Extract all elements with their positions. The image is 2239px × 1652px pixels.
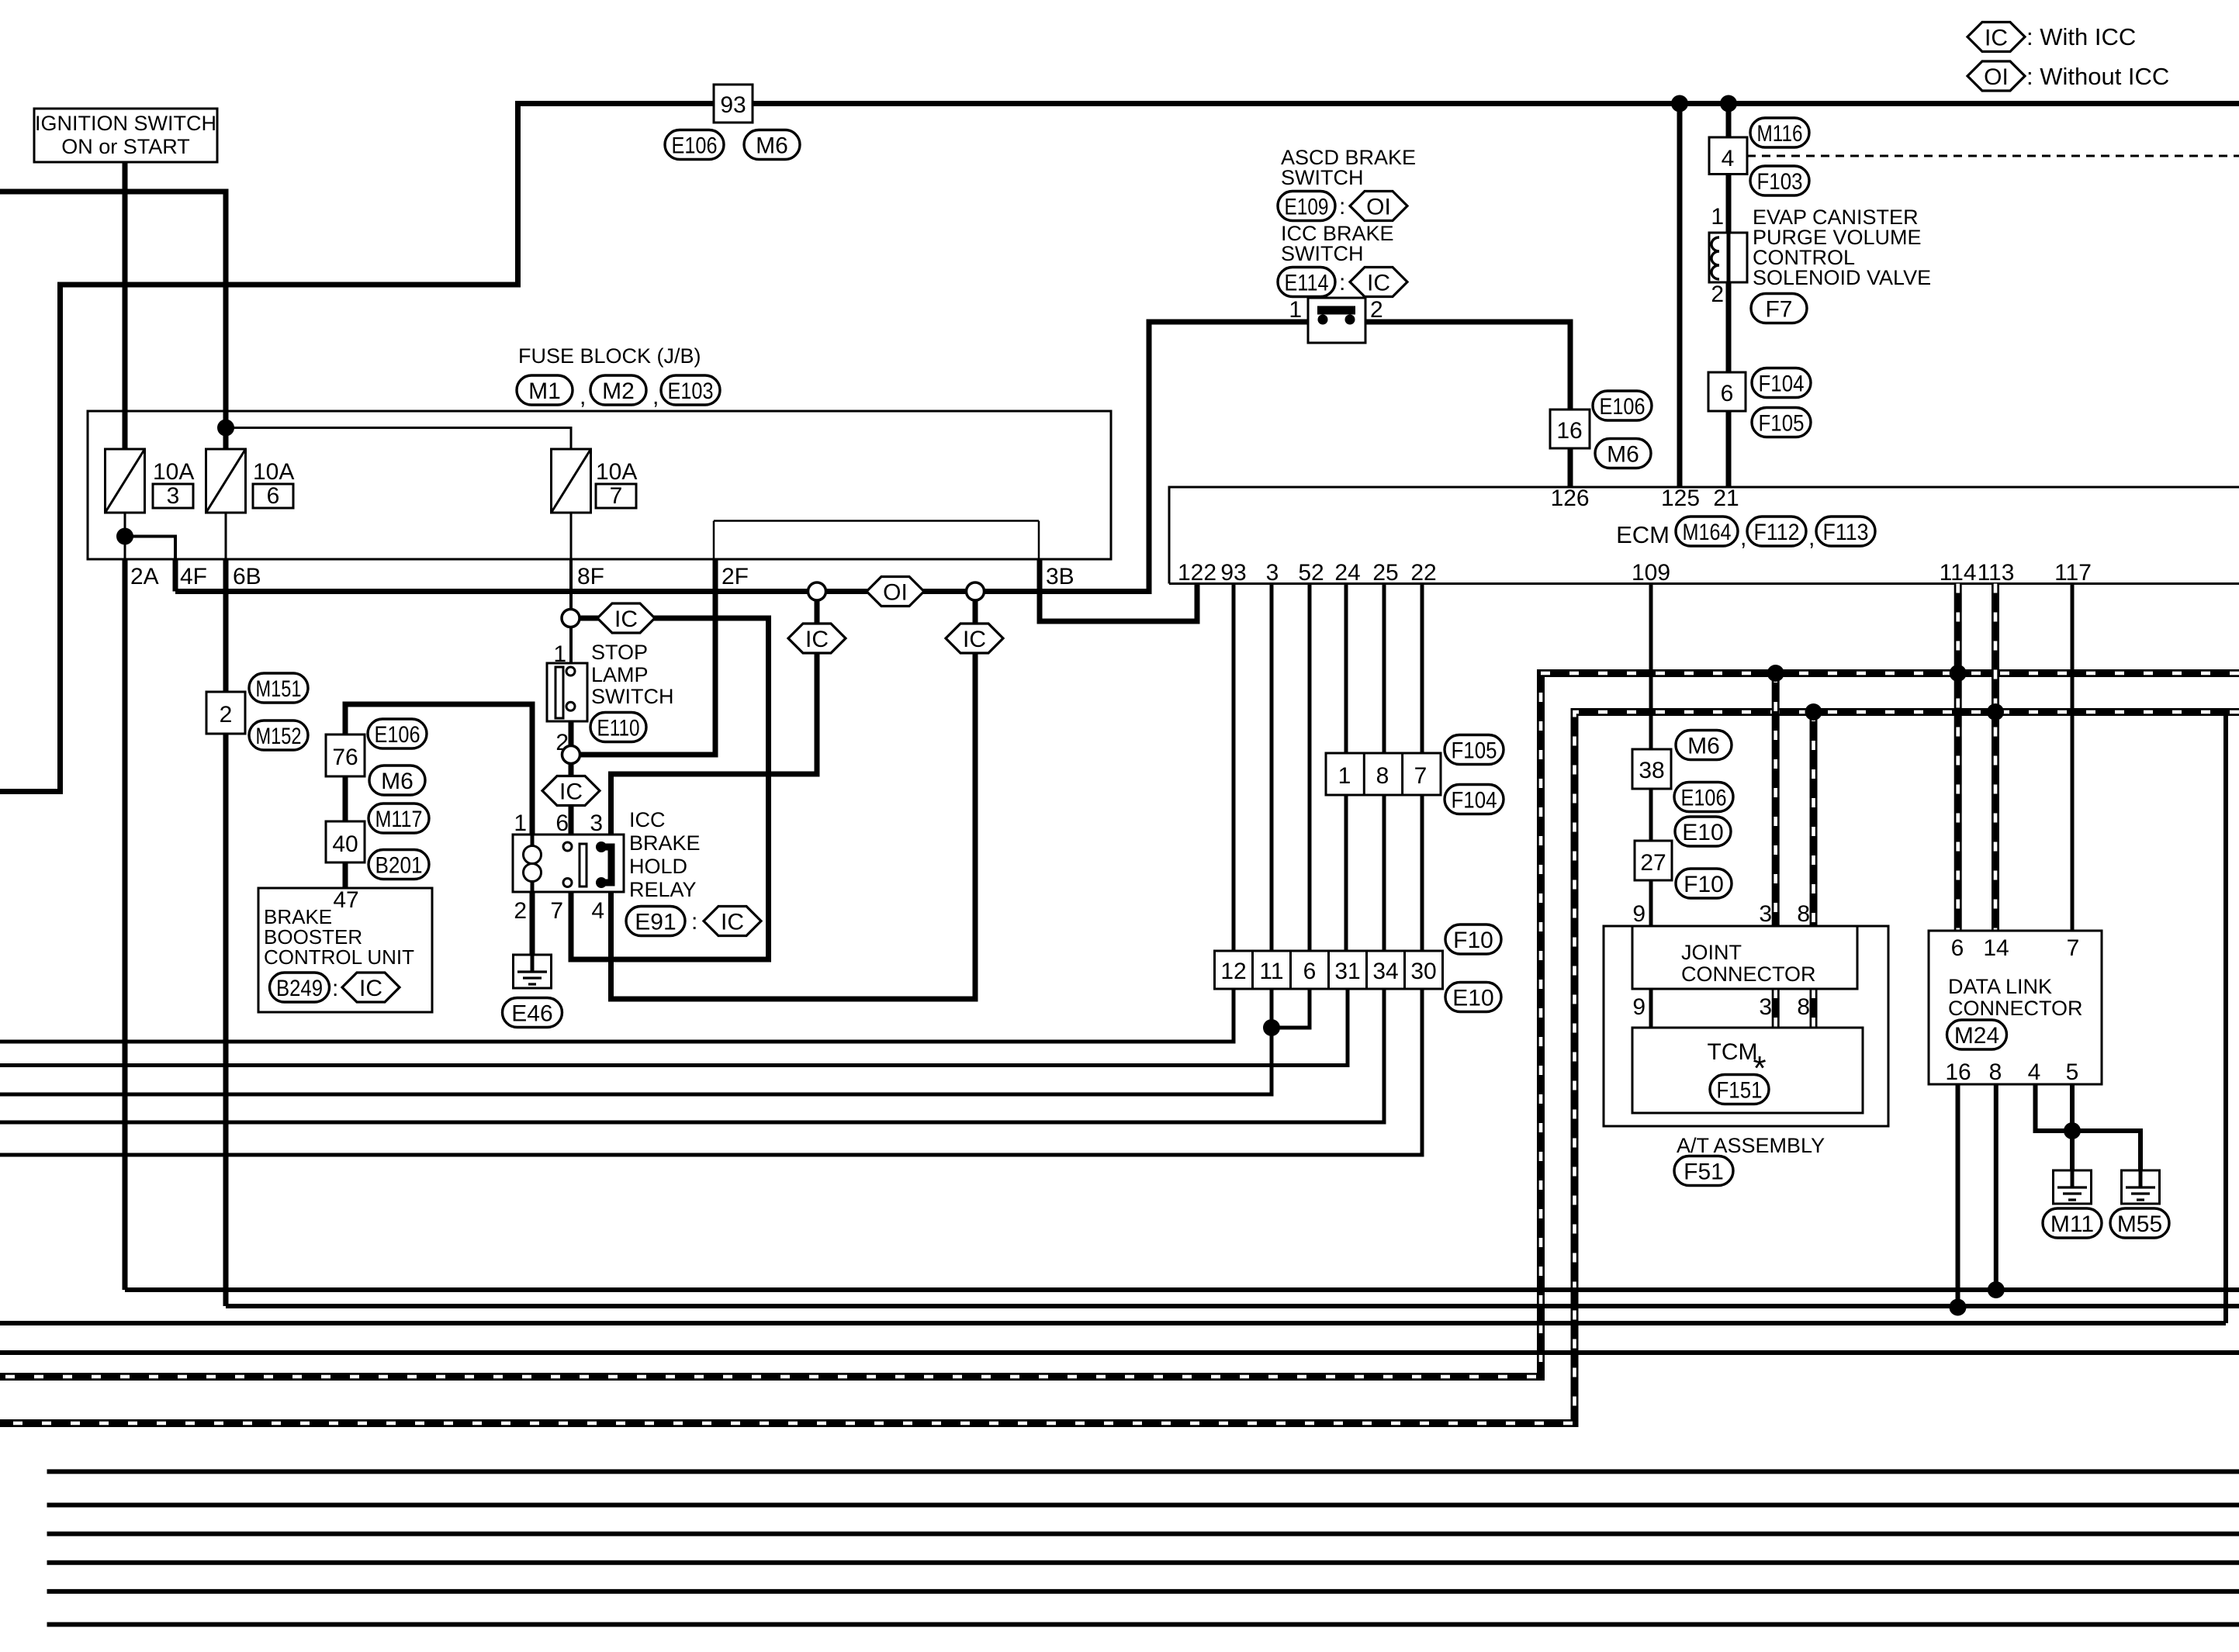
svg-text:F104: F104 (1452, 787, 1497, 813)
svg-text::: : (332, 976, 338, 1001)
svg-text:IC: IC (721, 910, 744, 935)
connector M2 oval (590, 375, 646, 405)
wire DLC 5 to ground M11 (2070, 1084, 2075, 1189)
svg-text:8: 8 (1797, 994, 1810, 1020)
connector B249 oval (270, 973, 330, 1002)
wire 40 to brake booster pin 47 (343, 862, 348, 890)
wire pin 34 to left bus line 4 (0, 989, 1384, 1122)
svg-text:4: 4 (1722, 146, 1735, 171)
connector E91 oval (626, 907, 685, 936)
svg-text:M6: M6 (756, 133, 788, 158)
wire ECM 114 dashed to DLC 6 (1954, 584, 1962, 931)
svg-text:SWITCH: SWITCH (591, 685, 673, 708)
svg-text:F10: F10 (1684, 872, 1724, 897)
junction CAN1 to ECM114 (1950, 665, 1967, 682)
wire pin 30 to left bus line 5 (0, 989, 1422, 1155)
connector E110 oval (590, 713, 646, 742)
connector circle stop lamp pin1 node (562, 610, 580, 627)
connector F113 oval (1816, 517, 1875, 546)
svg-text:E114: E114 (1285, 270, 1329, 295)
svg-text:F105: F105 (1452, 738, 1497, 763)
svg-text:M11: M11 (2050, 1211, 2094, 1237)
svg-text::: : (691, 909, 697, 935)
wire 4F bus left segment (175, 589, 808, 594)
svg-text:,: , (580, 384, 586, 410)
connector 6 box (F104/F105) (1708, 372, 1746, 411)
OI option hexagon on bus (867, 577, 924, 607)
connector E106 oval near 16 (1593, 391, 1652, 420)
svg-text:6B: 6B (233, 564, 261, 589)
svg-text:2F: 2F (722, 564, 749, 589)
svg-text:M55: M55 (2117, 1211, 2162, 1237)
svg-text:E103: E103 (668, 378, 714, 404)
svg-text:3: 3 (1266, 560, 1279, 586)
svg-text:M1: M1 (528, 378, 561, 404)
svg-text:,: , (1808, 525, 1815, 551)
wire fuse7 bottom to 8F (570, 513, 573, 559)
svg-text:IC: IC (614, 607, 638, 632)
legend OI hexagon (1967, 61, 2025, 91)
wire into stop lamp switch pin 1 (569, 627, 573, 664)
connector E106 oval near 76 (368, 719, 427, 748)
wire IC branch to relay pin 4 (611, 653, 976, 999)
svg-text:7: 7 (1414, 763, 1427, 789)
fuse 3 10A (106, 449, 145, 513)
svg-text:126: 126 (1551, 486, 1590, 511)
wire stop lamp node to relay pin 6 (569, 764, 574, 835)
svg-text:E10: E10 (1452, 985, 1493, 1011)
ground E46 oval (503, 998, 562, 1028)
svg-text:16: 16 (1556, 418, 1582, 444)
wire internal 3B tap (1038, 521, 1040, 560)
connector F7 oval (1751, 294, 1807, 323)
svg-text:M152: M152 (256, 724, 302, 749)
svg-text:IC: IC (559, 779, 583, 805)
wire 4F below block (173, 559, 178, 592)
svg-text:M117: M117 (375, 807, 423, 832)
connector 93 box on top wire (714, 85, 753, 123)
wire ECM 24 down (1344, 584, 1348, 990)
svg-text:LAMP: LAMP (591, 663, 649, 686)
EVAP purge volume control solenoid valve symbol (1709, 233, 1747, 282)
wire ECM 52 down (1308, 584, 1312, 990)
svg-text:CONTROL UNIT: CONTROL UNIT (264, 945, 414, 969)
svg-text:93: 93 (720, 92, 746, 118)
svg-text:M24: M24 (1954, 1023, 1999, 1049)
bottom feeder line 4 (47, 1560, 2239, 1565)
ICC IC option hexagon (1350, 268, 1407, 297)
svg-text:IC: IC (1985, 26, 2008, 51)
svg-text:3: 3 (1759, 994, 1772, 1020)
wire ECM 109 down to joint connector (1649, 584, 1653, 927)
svg-text:22: 22 (1410, 560, 1436, 586)
svg-text:38: 38 (1639, 758, 1664, 783)
fuse block (J/B) outline (88, 411, 1111, 559)
svg-text:JOINT: JOINT (1681, 941, 1742, 964)
svg-text:10A: 10A (153, 459, 194, 485)
connector F51 oval (1674, 1156, 1733, 1186)
svg-text:30: 30 (1410, 959, 1436, 984)
svg-text:F104: F104 (1759, 371, 1805, 396)
junction 2A/4F split (116, 528, 133, 545)
connector E109 oval (1278, 192, 1335, 221)
svg-text:F103: F103 (1757, 169, 1803, 195)
svg-text:SWITCH: SWITCH (1281, 242, 1363, 265)
svg-text:E109: E109 (1285, 194, 1329, 219)
svg-text:6: 6 (555, 810, 569, 836)
connector F103 oval (1750, 166, 1809, 195)
svg-text:2A: 2A (130, 564, 159, 589)
connector F112 oval (1747, 517, 1806, 546)
svg-text:27: 27 (1640, 850, 1666, 876)
svg-text:2: 2 (220, 702, 233, 728)
ground symbol E46 (514, 954, 552, 988)
svg-text:4: 4 (591, 898, 604, 924)
IC option hexagon above relay pin6 (542, 776, 600, 806)
svg-text:SOLENOID VALVE: SOLENOID VALVE (1753, 266, 1931, 289)
svg-text:F7: F7 (1765, 296, 1792, 322)
ground M11 oval (2043, 1208, 2102, 1238)
fuse 7 number box (596, 484, 636, 508)
svg-text:E106: E106 (375, 722, 420, 748)
svg-text:10A: 10A (253, 459, 294, 485)
wire internal 2F-3B link (714, 520, 1039, 522)
svg-text:F51: F51 (1684, 1159, 1724, 1184)
junction CAN1 to JC3 (1767, 665, 1784, 682)
svg-text:5: 5 (2066, 1059, 2079, 1085)
wire 4F bus middle segment (826, 589, 967, 594)
connector F10 oval near 27 (1676, 869, 1732, 898)
wire DLC 16 to bottom bus line 2 (1956, 1084, 1960, 1308)
wire internal 2F tap (713, 521, 715, 560)
connector F104 oval row1 (1445, 785, 1504, 814)
svg-text:F10: F10 (1453, 928, 1493, 953)
wire pin 31 to left bus line 2 (0, 989, 1348, 1066)
wire ECM 3 down (1270, 584, 1274, 990)
CAN wire 1 dashed (ECM 114) (0, 673, 2239, 1377)
wire relay pin 2 to ground (530, 892, 535, 972)
svg-text:,: , (652, 384, 659, 410)
svg-text:11: 11 (1259, 959, 1283, 984)
svg-text:IC: IC (1367, 271, 1390, 296)
wire 76 to 40 (343, 776, 348, 821)
bottom feeder line 3 (47, 1532, 2239, 1536)
ECM box (1169, 487, 2239, 584)
bus line 4 bottom (0, 1350, 2239, 1355)
wire joint connector 3 to TCM (1772, 989, 1780, 1028)
wire CAN2 branch to joint connector 8 (1810, 712, 1818, 926)
svg-text:7: 7 (610, 483, 623, 509)
junction CAN2 to ECM113 (1987, 703, 2004, 721)
connector circle bus right (967, 582, 985, 600)
bottom feeder line 5 (47, 1589, 2239, 1594)
wire bus to ICC brake switch pin 1 (985, 322, 1309, 592)
svg-text:A/T ASSEMBLY: A/T ASSEMBLY (1677, 1134, 1825, 1157)
svg-text:8: 8 (1989, 1059, 2002, 1085)
svg-text:M6: M6 (381, 769, 414, 794)
svg-text:3: 3 (590, 810, 603, 836)
bottom feeder line 1 (47, 1469, 2239, 1474)
svg-text:1: 1 (1289, 297, 1302, 323)
svg-text:47: 47 (333, 887, 358, 913)
svg-text:M2: M2 (602, 378, 635, 404)
svg-text:2: 2 (514, 898, 527, 924)
svg-text:14: 14 (1983, 935, 2009, 961)
ground symbol M55 (2122, 1170, 2160, 1204)
wire 2F to stop lamp pin2 node (580, 559, 715, 755)
svg-text:ECM: ECM (1616, 521, 1670, 548)
svg-text:HOLD: HOLD (629, 855, 687, 878)
connector M6 oval near 38 (1676, 731, 1732, 760)
connector E10 oval row2 (1445, 983, 1501, 1012)
svg-text:E10: E10 (1682, 820, 1723, 845)
svg-text:STOP: STOP (591, 641, 648, 664)
svg-text:6: 6 (1951, 935, 1964, 961)
svg-text:1: 1 (1711, 204, 1724, 230)
connector E114 oval (1278, 268, 1335, 297)
junction fuse6 top (217, 420, 234, 437)
IC option hexagon on stop lamp branch (597, 603, 655, 633)
wire relay pin 1 to brake booster 76 (345, 704, 532, 835)
bus line 3 bottom to CAN2 tap (0, 1321, 2226, 1325)
wire CAN1 branch to joint connector 3 (1772, 673, 1780, 926)
svg-text:1: 1 (553, 641, 566, 667)
connector F151 oval (1710, 1075, 1769, 1104)
CAN wire 2 dashed (ECM 113) (0, 712, 2239, 1423)
svg-text:E106: E106 (672, 133, 718, 158)
svg-text:BRAKE: BRAKE (629, 831, 701, 855)
svg-text:16: 16 (1945, 1059, 1971, 1085)
svg-text:40: 40 (332, 831, 358, 857)
wire DLC 8 to bottom bus line 1 (1994, 1084, 1998, 1290)
wire DLC 4 to ground node (2036, 1084, 2073, 1131)
wire ignition-on feed to fuse 6 (0, 192, 226, 451)
svg-text:: With ICC: : With ICC (2026, 23, 2136, 50)
svg-text:M116: M116 (1757, 121, 1803, 147)
svg-text:E106: E106 (1681, 785, 1727, 810)
junction 125 wire on 93 wire (1671, 95, 1688, 112)
svg-text:25: 25 (1372, 560, 1398, 586)
wire joint connector 8 to TCM (1810, 989, 1818, 1028)
svg-text:8: 8 (1797, 901, 1810, 927)
svg-text:31: 31 (1334, 959, 1360, 984)
relay IC option hexagon (704, 907, 761, 936)
connector circle bus left (808, 582, 826, 600)
svg-text:6: 6 (1303, 959, 1317, 984)
connector 16 box (E106/M6) (1550, 410, 1590, 448)
wire IC branch to relay pin 3 (611, 653, 818, 835)
svg-text:F112: F112 (1754, 520, 1800, 545)
wire 2A down to bottom bus (123, 559, 128, 1290)
connector circle stop lamp pin2 node (562, 746, 580, 764)
connector F105 oval row1 (1445, 735, 1504, 765)
connector M152 oval (249, 721, 308, 750)
svg-text:DATA LINK: DATA LINK (1948, 975, 2052, 998)
connector E103 oval (661, 375, 720, 405)
svg-text:M6: M6 (1687, 733, 1720, 759)
connector M24 oval (1947, 1020, 2007, 1049)
connector M117 oval (369, 804, 429, 833)
wire joint connector 9 to TCM (1649, 989, 1653, 1028)
ICC brake hold relay E91 (513, 835, 624, 892)
connector E106 oval near 38 (1674, 783, 1733, 812)
svg-text:,: , (1740, 525, 1746, 551)
svg-text:B201: B201 (375, 852, 423, 878)
svg-text:6: 6 (1721, 381, 1734, 406)
svg-text:4F: 4F (180, 564, 207, 589)
junction DLC8 on 2A line (1988, 1281, 2005, 1298)
connector M116 oval (1750, 118, 1809, 147)
svg-text:8F: 8F (577, 564, 604, 589)
svg-text:CONNECTOR: CONNECTOR (1948, 997, 2083, 1020)
ASCD OI option hexagon (1350, 192, 1407, 221)
wire bus left circle to IC hexagon (815, 600, 820, 624)
wire fuse6 top to fuse7 top inside block (226, 428, 571, 452)
connector F105 oval (1752, 408, 1811, 437)
svg-text:B249: B249 (276, 976, 323, 1001)
junction pins 11 and 6 (1263, 1019, 1280, 1036)
svg-text:E106: E106 (1600, 394, 1646, 420)
data link connector box (1929, 931, 2102, 1084)
svg-text:24: 24 (1334, 560, 1360, 586)
svg-text:34: 34 (1372, 959, 1398, 984)
svg-text:122: 122 (1178, 560, 1216, 586)
svg-text:6: 6 (267, 483, 280, 509)
svg-text:76: 76 (332, 745, 358, 770)
bottom feeder line 2 (47, 1503, 2239, 1508)
svg-text:FUSE BLOCK (J/B): FUSE BLOCK (J/B) (518, 344, 701, 368)
connector F10 oval row2 (1445, 924, 1501, 954)
svg-text:3: 3 (167, 483, 180, 509)
connector E106 oval under 93 box (665, 130, 724, 160)
wire left feeder from page edge up to 93 wire (0, 101, 518, 792)
IC option hexagon left branch (788, 624, 846, 653)
svg-text:M164: M164 (1683, 520, 1732, 545)
inline connector row 12/11/6/31/34/30 (1215, 951, 1443, 989)
connector M6 oval under 93 box (744, 130, 800, 160)
svg-text:9: 9 (1632, 994, 1646, 1020)
A/T assembly box (1604, 926, 1888, 1126)
svg-text:4: 4 (2028, 1059, 2041, 1085)
wire ignition switch to fuse 3 (123, 162, 128, 451)
connector B201 oval (369, 850, 429, 880)
svg-text:TCM: TCM (1708, 1039, 1758, 1065)
IC option hexagon right branch (946, 624, 1003, 653)
svg-text:1: 1 (1338, 763, 1351, 789)
ICC brake switch E114 (1308, 298, 1365, 343)
svg-text:F151: F151 (1717, 1077, 1763, 1103)
brake booster IC option hexagon (342, 973, 400, 1002)
svg-text:F113: F113 (1823, 520, 1869, 545)
svg-text:7: 7 (550, 898, 563, 924)
connector M6 oval near 76 (369, 766, 425, 795)
wire bus right circle to IC hexagon (973, 600, 978, 624)
wire ECM 122 to fuse block 3B (1040, 559, 1197, 621)
TCM box (1632, 1028, 1863, 1113)
svg-text:RELAY: RELAY (629, 878, 697, 901)
svg-text:ON or START: ON or START (61, 135, 190, 158)
fuse 6 10A (206, 449, 246, 513)
ignition switch box (34, 109, 217, 162)
svg-text:114: 114 (1940, 560, 1977, 586)
wire ICC switch pin 2 to ECM 126 (1365, 322, 1570, 487)
svg-text::: : (1339, 194, 1345, 219)
svg-text:E110: E110 (597, 715, 640, 741)
wire pins 11+6 to left bus line 3 (0, 989, 1272, 1094)
svg-text:109: 109 (1632, 560, 1670, 586)
wire ECM 22 down (1421, 584, 1424, 990)
svg-text:SWITCH: SWITCH (1281, 166, 1363, 189)
svg-text:F105: F105 (1759, 410, 1805, 436)
junction 21 wire on 93 wire (1720, 95, 1737, 112)
svg-text:2: 2 (1370, 297, 1383, 323)
junction DLC16 on 6B line (1950, 1299, 1967, 1316)
inline connector row 1/8/7 (1326, 753, 1441, 795)
junction DLC 4/5 ground node (2064, 1122, 2081, 1139)
svg-text:9: 9 (1632, 901, 1646, 927)
wire fuse6 bottom to 6B (225, 513, 227, 559)
svg-text:M6: M6 (1607, 441, 1639, 467)
svg-text:2: 2 (1711, 282, 1724, 307)
wire ground node to M55 (2072, 1131, 2140, 1189)
svg-text:IC: IC (359, 976, 382, 1001)
svg-text:3: 3 (1759, 901, 1772, 927)
svg-text:52: 52 (1298, 560, 1324, 586)
svg-text:12: 12 (1220, 959, 1246, 984)
fuse 3 number box (153, 484, 193, 508)
junction CAN2 to JC8 (1805, 703, 1822, 721)
connector 38 box (1632, 749, 1671, 789)
svg-text:IC: IC (963, 627, 986, 652)
wire 8F to stop lamp switch (569, 559, 573, 609)
wire stop lamp IC branch to relay pin 7 (571, 618, 769, 959)
svg-text:1: 1 (514, 810, 527, 836)
svg-text:113: 113 (1978, 560, 2015, 586)
wire 6B down to bottom bus (223, 559, 229, 1306)
fuse 6 number box (253, 484, 293, 508)
svg-text:M151: M151 (256, 676, 302, 702)
svg-text:IGNITION SWITCH: IGNITION SWITCH (35, 112, 216, 135)
svg-text:E46: E46 (511, 1001, 552, 1026)
svg-text:CONNECTOR: CONNECTOR (1681, 963, 1816, 986)
fuse 7 10A (552, 449, 591, 513)
svg-text:117: 117 (2054, 560, 2092, 586)
wire fuse3 bottom to 2A (124, 513, 126, 559)
svg-text:ICC: ICC (629, 808, 666, 831)
wire branch to 4F (125, 537, 175, 560)
wire CAN2 tap down to bottom bus line (2223, 712, 2228, 1323)
ground M55 oval (2110, 1208, 2169, 1238)
svg-text:21: 21 (1713, 486, 1739, 511)
svg-text:IC: IC (805, 627, 829, 652)
stop lamp switch E110 (547, 663, 587, 721)
svg-text:: Without ICC: : Without ICC (2026, 63, 2169, 90)
svg-text:10A: 10A (596, 459, 637, 485)
svg-text:E91: E91 (635, 909, 676, 935)
connector 4 box (M116/F103) (1709, 137, 1747, 175)
connector 27 box (1635, 841, 1672, 880)
svg-text:125: 125 (1661, 486, 1700, 511)
wire ECM 25 down (1383, 584, 1386, 990)
bus line 2A bottom (125, 1287, 2239, 1292)
wire 93 feed top horizontal (518, 101, 2239, 106)
connector M1 oval (517, 375, 573, 405)
connector 2 box (M151/M152) (206, 692, 245, 734)
brake booster control unit box (258, 888, 432, 1012)
connector E10 oval near 27 (1675, 817, 1731, 846)
svg-text:93: 93 (1220, 560, 1246, 586)
connector 76 box (326, 734, 365, 776)
